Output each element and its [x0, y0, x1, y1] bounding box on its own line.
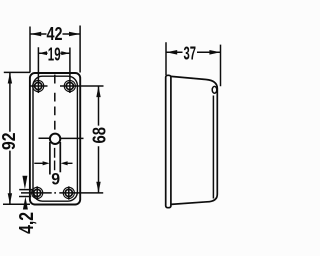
side view mounting plate — [166, 75, 171, 207]
horizontal centerline through cable hole — [39, 137, 84, 139]
dimension 42 line — [30, 33, 80, 35]
svg-text:68: 68 — [90, 127, 110, 144]
dimension 9 arrow right with tail — [66, 162, 73, 164]
svg-text:42: 42 — [47, 24, 63, 44]
dimension 19 arrow left — [39, 51, 48, 55]
front view outer outline — [30, 73, 80, 205]
dimension 68 line — [98, 86, 100, 192]
front view inner outline — [33, 76, 77, 201]
dimension 92 line — [9, 72, 11, 204]
cable hole circle — [50, 134, 60, 144]
dimension 37 arrow right — [209, 50, 220, 55]
dimension 19 line — [38, 52, 70, 54]
dimension 68 arrow top — [96, 86, 100, 97]
screw hole top-right — [66, 82, 73, 89]
vertical centerline above circle — [54, 75, 56, 130]
dimension 37 extension lines — [166, 42, 221, 86]
dimension 42 arrow right — [69, 32, 80, 37]
dimension 4,2 extension lines (hole tangents) — [19, 190, 34, 197]
hole pad top-right — [64, 80, 75, 91]
hole pad bottom-right — [63, 187, 74, 198]
dimension 19 extension lines (through top holes) — [38, 47, 70, 93]
screw hole bottom-left — [34, 189, 41, 196]
dimension 92 extension lines — [3, 72, 30, 204]
dimension 42 arrow left — [30, 32, 41, 37]
crosshair bottom-right hole (extends to 68 dim) — [62, 186, 103, 199]
side view lens bead ellipse — [212, 86, 217, 93]
screw hole top-left — [35, 82, 42, 89]
dimension 37 arrow left — [166, 50, 177, 55]
svg-text:37: 37 — [184, 44, 197, 64]
dimension 42 extension lines — [30, 26, 80, 73]
crosshair bottom-left hole — [21, 186, 47, 199]
side view inner right edge — [212, 96, 214, 199]
cable slot right edge — [59, 142, 61, 172]
crosshair top-left hole — [31, 85, 48, 87]
vertical centerline dashes in slot — [54, 148, 56, 170]
dimension 4,2 arrow lower — [23, 197, 28, 210]
hole pad top-left — [33, 80, 44, 91]
dimension 92 arrow bottom — [8, 193, 12, 204]
dimension 68 arrow bottom — [96, 182, 100, 193]
dimension 19 arrow right — [61, 51, 70, 55]
svg-text:9: 9 — [51, 170, 60, 189]
centerline dash-dot between bottom holes — [47, 192, 62, 194]
svg-text:19: 19 — [48, 44, 61, 64]
dimension 37 line — [166, 51, 220, 53]
dimension 4,2 arrow upper — [22, 176, 27, 190]
dimension 9 arrow left with tail — [34, 162, 44, 164]
svg-text:92: 92 — [0, 133, 19, 151]
side view body outline — [171, 76, 217, 204]
crosshair top-right hole (extends to 68 dim) — [60, 85, 104, 87]
dimension 92 arrow top — [8, 73, 12, 84]
screw hole bottom-right — [65, 189, 72, 196]
svg-text:4,2: 4,2 — [16, 212, 38, 234]
cable slot left edge — [49, 142, 51, 175]
hole pad bottom-left — [32, 187, 43, 198]
